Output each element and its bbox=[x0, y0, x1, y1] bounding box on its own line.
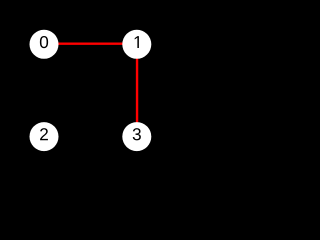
label 0 bbox=[40, 36, 48, 48]
edge 0-1 (wire) bbox=[44, 43, 137, 45]
label 1 bbox=[135, 36, 139, 48]
label 2 bbox=[40, 128, 48, 140]
node 1 bbox=[122, 30, 151, 59]
node 3 bbox=[122, 122, 151, 151]
node 0 bbox=[30, 30, 59, 59]
edge 1-3 (wire) bbox=[136, 44, 138, 137]
node 2 bbox=[30, 122, 59, 151]
label 3 bbox=[133, 128, 141, 140]
